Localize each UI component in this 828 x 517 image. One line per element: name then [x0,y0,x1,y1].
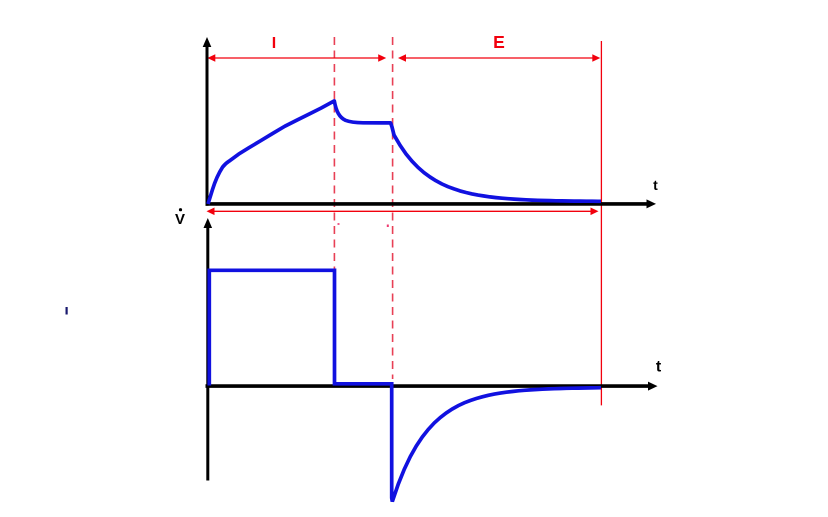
svg-text:t: t [656,359,662,376]
svg-text:t: t [653,177,658,193]
svg-text:E: E [493,32,505,52]
svg-text:I: I [272,35,276,52]
svg-text:V: V [175,211,185,228]
